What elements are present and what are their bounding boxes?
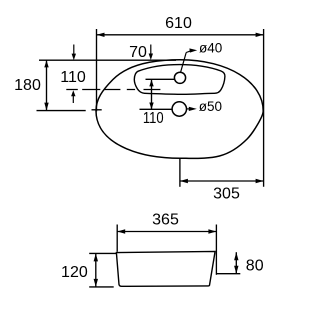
drain hole ø50 [172, 102, 186, 116]
svg-text:120: 120 [61, 264, 88, 281]
svg-text:ø50: ø50 [199, 99, 222, 114]
faucet deck band [134, 65, 225, 95]
leader ø40 [181, 53, 187, 73]
side view trapezoid [116, 251, 215, 286]
basin outer rim (top view) [96, 60, 263, 159]
svg-text:305: 305 [213, 186, 240, 203]
left ext line of 610 [96, 29, 98, 111]
dim 365 [116, 225, 118, 252]
dim 120 [89, 252, 117, 254]
svg-text:70: 70 [129, 44, 147, 61]
svg-text:110: 110 [143, 110, 164, 127]
dashed centerline [66, 89, 160, 91]
svg-text:ø40: ø40 [199, 41, 222, 56]
svg-text:80: 80 [246, 258, 264, 275]
dim 180 [37, 110, 86, 112]
dim 610 [97, 34, 264, 36]
dim 305 [179, 159, 181, 187]
dim 110 left [73, 45, 75, 55]
svg-text:610: 610 [165, 15, 192, 32]
right ext line [263, 29, 265, 187]
dim 80 [216, 273, 240, 275]
svg-text:110: 110 [60, 69, 86, 86]
svg-text:180: 180 [14, 77, 41, 94]
faucet hole ø40 [174, 72, 185, 83]
dim 70 [150, 45, 152, 55]
dim 110 inside [146, 78, 175, 80]
top extension line [39, 59, 176, 61]
leader ø50 [187, 108, 190, 110]
svg-text:365: 365 [152, 212, 179, 229]
